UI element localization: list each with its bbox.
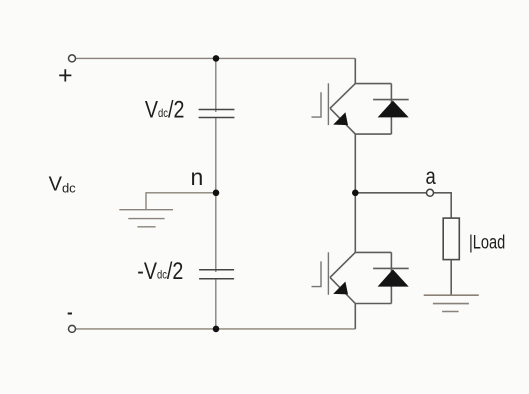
svg-text:+: + <box>58 62 73 90</box>
svg-text:n: n <box>191 164 204 190</box>
svg-text:-: - <box>67 303 73 322</box>
svg-text:a: a <box>426 164 437 189</box>
svg-text:|Load: |Load <box>469 230 505 253</box>
